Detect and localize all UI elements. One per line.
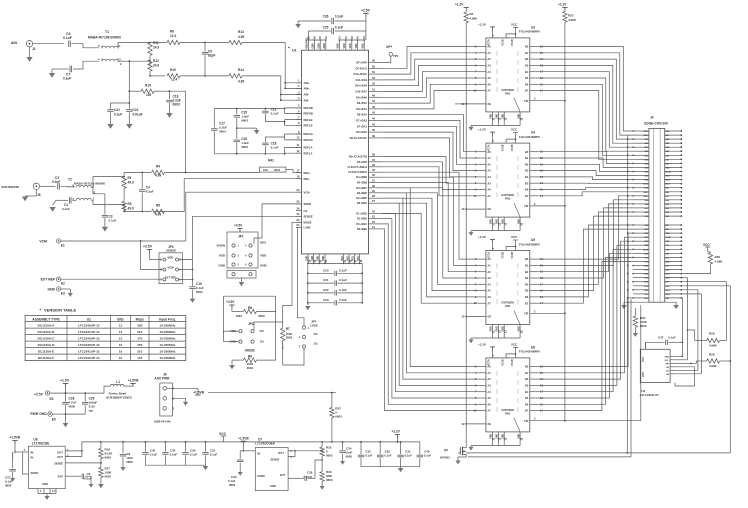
U6 pin OE — [466, 423, 486, 425]
svg-text:B5: B5 — [525, 76, 529, 80]
U3 pin A6 — [478, 83, 486, 85]
svg-text:33: 33 — [372, 173, 375, 177]
U3 pin B6 — [530, 83, 539, 85]
svg-text:OE: OE — [487, 315, 491, 319]
svg-text:0.1uF: 0.1uF — [63, 36, 72, 40]
svg-text:D0-/DB0: D0-/DB0 — [357, 227, 368, 231]
svg-text:VSS: VSS — [642, 372, 645, 377]
svg-text:4.99K: 4.99K — [568, 18, 577, 22]
ground — [305, 306, 311, 310]
wire — [383, 203, 478, 297]
wire SCL up to J4 — [686, 278, 688, 360]
svg-text:+2.5V: +2.5V — [226, 300, 235, 304]
svg-text:A1: A1 — [487, 51, 491, 55]
svg-text:+1.5VB: +1.5VB — [193, 391, 204, 395]
svg-text:31: 31 — [372, 179, 375, 183]
svg-text:22: 22 — [372, 220, 375, 224]
U5 pin T/R — [530, 312, 565, 314]
J4 row 31 — [633, 256, 649, 258]
U5 pin A5 — [478, 290, 486, 292]
svg-text:D0+/DB1: D0+/DB1 — [356, 222, 367, 226]
svg-text:170: 170 — [137, 356, 142, 360]
U5 pin B4 — [530, 283, 539, 285]
svg-text:17: 17 — [297, 168, 300, 172]
svg-text:OF-/DA11: OF-/DA11 — [355, 66, 367, 70]
svg-text:+1.2V: +1.2V — [455, 3, 464, 7]
svg-text:GND: GND — [665, 286, 670, 288]
capacitor C42 — [128, 103, 130, 109]
svg-text:0.1uF: 0.1uF — [335, 26, 343, 30]
U5 pin A1 — [478, 264, 486, 266]
ground — [297, 21, 299, 24]
wire — [383, 188, 478, 278]
svg-text:VCC: VCC — [511, 342, 518, 346]
svg-text:DB8: DB8 — [645, 204, 649, 206]
svg-text:DA6: DA6 — [645, 150, 649, 153]
svg-text:10-250MHz: 10-250MHz — [159, 336, 175, 340]
svg-text:0.1uF: 0.1uF — [271, 112, 279, 116]
svg-text:REFHB: REFHB — [304, 106, 313, 110]
svg-text:B5: B5 — [525, 289, 529, 293]
svg-text:SDA: SDA — [665, 260, 670, 263]
svg-text:U1: U1 — [87, 317, 91, 321]
svg-text:49.9: 49.9 — [128, 207, 134, 211]
svg-text:0.1uF: 0.1uF — [668, 336, 676, 340]
wire — [383, 115, 478, 152]
svg-text:DA5: DA5 — [645, 154, 649, 157]
wire — [539, 204, 634, 272]
svg-text:A3: A3 — [487, 276, 491, 280]
U6 pin B3 — [530, 384, 539, 386]
svg-text:D7-/DA1: D7-/DA1 — [357, 124, 368, 128]
svg-text:B3: B3 — [525, 384, 529, 388]
svg-text:VCC: VCC — [703, 243, 710, 247]
J4 row 10 — [633, 166, 649, 168]
wire — [539, 182, 634, 185]
wire — [539, 196, 634, 259]
wire — [539, 216, 634, 291]
svg-text:A7: A7 — [487, 89, 491, 93]
svg-text:EXPOSED: EXPOSED — [502, 301, 515, 305]
svg-text:SDA: SDA — [664, 355, 669, 358]
U5 pin A7 — [478, 302, 486, 304]
U2 pin WP — [670, 362, 675, 364]
wire — [383, 59, 478, 80]
svg-text:B6: B6 — [525, 188, 529, 192]
U3 pin A1 — [478, 52, 486, 54]
ground — [470, 445, 472, 447]
svg-text:B0: B0 — [525, 45, 529, 49]
svg-text:B0: B0 — [525, 365, 529, 369]
wire U6 T/R extension — [565, 420, 641, 422]
U4 pin B1 — [530, 157, 539, 159]
svg-text:DB1: DB1 — [665, 225, 669, 227]
svg-text:OUT: OUT — [278, 451, 284, 455]
svg-text:B2: B2 — [525, 57, 529, 61]
svg-text:+1.2V: +1.2V — [478, 22, 486, 26]
svg-text:IN: IN — [31, 456, 34, 460]
svg-text:56: 56 — [372, 59, 375, 63]
svg-text:VDD: VDD — [219, 254, 226, 258]
svg-text:DB11: DB11 — [665, 180, 670, 182]
svg-text:B7: B7 — [525, 409, 529, 413]
wire U8 out — [65, 450, 82, 452]
ground — [126, 124, 132, 129]
svg-text:B2: B2 — [525, 270, 529, 274]
wire — [539, 192, 634, 196]
svg-text:VCC: VCC — [665, 257, 670, 259]
svg-text:GND: GND — [665, 167, 670, 169]
svg-text:REFHA: REFHA — [304, 132, 313, 136]
wire — [539, 245, 634, 385]
svg-text:0.1uF: 0.1uF — [339, 298, 347, 302]
svg-text:63: 63 — [297, 218, 300, 222]
svg-text:A3: A3 — [487, 64, 491, 68]
wire R32 to VCC rail — [321, 442, 323, 447]
wire U2 cluster — [675, 355, 682, 357]
svg-text:0603: 0603 — [229, 483, 236, 487]
ground — [166, 113, 172, 118]
svg-text:opt: opt — [89, 409, 94, 413]
svg-text:0.1uF: 0.1uF — [384, 454, 392, 458]
svg-text:DA8: DA8 — [665, 130, 669, 133]
U6 pin A4 — [478, 391, 486, 393]
ground — [183, 402, 188, 406]
svg-text:T2: T2 — [68, 178, 72, 182]
svg-text:GND: GND — [665, 176, 670, 178]
svg-text:PWR GND: PWR GND — [30, 412, 47, 416]
J4 row 16 — [633, 191, 649, 193]
J4 row 1 — [633, 130, 649, 132]
svg-text:REFLB: REFLB — [304, 124, 313, 128]
svg-text:OF8: OF8 — [645, 261, 649, 263]
svg-text:GND: GND — [218, 264, 226, 268]
svg-text:CLKB: CLKB — [665, 237, 671, 239]
wire REFHA bridge — [284, 134, 286, 140]
J4 row 33 — [633, 265, 649, 267]
svg-text:28: 28 — [372, 194, 375, 198]
J4 row 36 — [633, 277, 649, 279]
svg-text:B1: B1 — [525, 264, 529, 268]
U3 pin B1 — [530, 52, 539, 54]
svg-text:VCCA: VCCA — [488, 144, 491, 151]
svg-text:R12: R12 — [153, 59, 159, 63]
svg-text:49: 49 — [372, 93, 375, 97]
capacitor C41 — [111, 103, 130, 109]
U6 pin B7 — [530, 410, 539, 412]
wire REFHB bridge — [285, 107, 302, 109]
svg-text:0603: 0603 — [335, 415, 342, 419]
svg-text:EDGE-CON-100: EDGE-CON-100 — [644, 122, 668, 126]
U2 pin SCL — [670, 359, 675, 361]
wire — [383, 167, 478, 196]
svg-text:PAD: PAD — [505, 411, 510, 415]
wire — [383, 72, 478, 92]
J4 row 19 — [633, 203, 649, 205]
svg-text:0.01uF: 0.01uF — [133, 113, 143, 117]
U4 pin B7 — [530, 195, 539, 197]
ground right — [665, 302, 676, 305]
svg-text:ENC+: ENC+ — [304, 171, 312, 175]
svg-text:B3B-PH-SK: B3B-PH-SK — [154, 420, 171, 424]
svg-text:VCCB: VCCB — [503, 252, 505, 259]
svg-text:46: 46 — [372, 105, 375, 109]
svg-text:A5: A5 — [487, 396, 491, 400]
U3 pin A7 — [478, 90, 486, 92]
svg-text:OE2: OE2 — [260, 241, 266, 245]
svg-text:D9+/DA6: D9+/DA6 — [356, 95, 367, 99]
svg-text:EXT REF: EXT REF — [165, 275, 176, 279]
wire — [539, 212, 634, 284]
svg-text:DB2: DB2 — [665, 216, 669, 218]
svg-text:SENSE: SENSE — [166, 249, 176, 253]
J4 row 4 — [633, 142, 649, 144]
capacitor C7 — [73, 61, 99, 69]
svg-text:DC1130A-A: DC1130A-A — [38, 323, 55, 327]
svg-text:B7: B7 — [525, 301, 529, 305]
J4 row 41 — [633, 297, 649, 299]
svg-text:DA10: DA10 — [665, 293, 670, 296]
svg-text:D11+/DA10: D11+/DA10 — [354, 72, 368, 76]
J4 row 26 — [633, 236, 649, 238]
svg-text:10: 10 — [119, 349, 123, 353]
svg-text:DA10: DA10 — [643, 134, 648, 137]
svg-text:B1: B1 — [525, 51, 529, 55]
svg-text:0.1uF: 0.1uF — [339, 278, 347, 282]
svg-text:R2: R2 — [469, 12, 473, 16]
J4 row 38 — [633, 285, 649, 287]
wire Q5 source to ground — [458, 454, 466, 460]
wire T1 top out — [117, 45, 119, 48]
svg-text:40: 40 — [372, 128, 375, 132]
wire — [72, 44, 100, 48]
U1 top pins VDD group — [338, 40, 340, 50]
svg-text:4.99: 4.99 — [238, 35, 244, 39]
svg-text:A3: A3 — [487, 384, 491, 388]
U6 pin A1 — [478, 372, 486, 374]
U6 pin A0 — [478, 366, 486, 368]
svg-text:DA0: DA0 — [665, 162, 669, 165]
svg-text:C25: C25 — [323, 26, 329, 30]
U4 pin B3 — [530, 170, 539, 172]
svg-text:210: 210 — [137, 330, 142, 334]
wire — [539, 47, 634, 132]
wire — [383, 214, 478, 392]
svg-text:VCCB: VCCB — [503, 39, 505, 46]
svg-text:CLKA: CLKA — [643, 183, 649, 186]
svg-text:10-250MHz: 10-250MHz — [159, 330, 175, 334]
ground — [470, 338, 472, 340]
svg-text:0603: 0603 — [326, 454, 333, 458]
svg-text:+0.5V: +0.5V — [234, 224, 243, 228]
svg-text:GND: GND — [644, 298, 649, 300]
svg-text:GND: GND — [42, 482, 48, 486]
svg-text:CLKOUT+/DB11: CLKOUT+/DB11 — [347, 165, 367, 169]
svg-text:0.1uF: 0.1uF — [210, 453, 218, 457]
wire — [383, 132, 478, 171]
svg-text:Input Freq.: Input Freq. — [159, 317, 176, 321]
svg-text:GND: GND — [665, 270, 670, 272]
svg-text:DB3: DB3 — [645, 229, 649, 231]
U3 pin A2 — [478, 58, 486, 60]
svg-text:DB6: DB6 — [665, 200, 669, 202]
ground Q5 — [455, 461, 460, 465]
wire R28 R26 net — [687, 330, 694, 341]
J4 row 23 — [633, 224, 649, 226]
svg-text:PAD: PAD — [505, 91, 510, 95]
svg-text:A4: A4 — [487, 282, 491, 286]
ground — [22, 197, 28, 202]
ground — [26, 57, 32, 62]
svg-text:DB11: DB11 — [644, 192, 649, 194]
capacitor C9 — [204, 42, 206, 44]
J4 row 35 — [633, 273, 649, 275]
U5 pin A6 — [478, 296, 486, 298]
U2 pin A0 — [670, 373, 675, 375]
svg-text:C47: C47 — [658, 336, 664, 340]
svg-text:VDD: VDD — [349, 43, 352, 48]
svg-text:VCCB: VCCB — [512, 359, 514, 366]
svg-text:R15: R15 — [145, 84, 151, 88]
svg-text:DA5: DA5 — [665, 142, 669, 145]
J4 row 21 — [633, 211, 649, 213]
svg-text:12.4: 12.4 — [170, 34, 176, 38]
svg-text:PAD: PAD — [505, 304, 510, 308]
svg-text:LVDS: LVDS — [310, 323, 318, 327]
svg-text:10-250MHz: 10-250MHz — [159, 323, 175, 327]
svg-text:0603: 0603 — [196, 290, 203, 294]
svg-text:VCCB: VCCB — [503, 359, 505, 366]
U6 pin B6 — [530, 403, 539, 405]
svg-text:DA9: DA9 — [645, 138, 649, 141]
svg-text:D1-/DB2: D1-/DB2 — [357, 217, 368, 221]
svg-text:E3: E3 — [61, 292, 65, 296]
svg-text:0603: 0603 — [105, 475, 112, 479]
svg-text:REFLA: REFLA — [304, 146, 313, 150]
svg-text:J4: J4 — [650, 116, 654, 120]
wire to AIN- pins — [280, 76, 282, 100]
U6 pin B5 — [530, 397, 539, 399]
U5 pin A3 — [478, 277, 486, 279]
wire bottom rail — [308, 262, 362, 264]
U4 bottom GND pins — [491, 217, 493, 227]
J4 row 30 — [633, 252, 649, 254]
U6 pin B4 — [530, 391, 539, 393]
wire — [539, 257, 634, 404]
wire — [539, 78, 634, 151]
wire ENC+ row — [123, 176, 125, 178]
svg-text:J1: J1 — [32, 47, 36, 51]
wire — [539, 164, 634, 171]
svg-text:R26: R26 — [709, 353, 715, 357]
svg-text:DA2: DA2 — [665, 154, 669, 157]
U1 bottom pins — [307, 254, 309, 264]
svg-text:PAD: PAD — [505, 197, 510, 201]
svg-text:FXLH4245MPX: FXLH4245MPX — [519, 242, 540, 246]
svg-text:A2: A2 — [487, 162, 491, 166]
svg-text:B2: B2 — [525, 377, 529, 381]
svg-text:ENC0DE03K: ENC0DE03K — [2, 185, 21, 189]
svg-text:10-250MHz: 10-250MHz — [159, 356, 175, 360]
U4 pin A5 — [478, 182, 486, 184]
svg-text:REFLB: REFLB — [304, 118, 313, 122]
svg-text:+2.5V: +2.5V — [34, 392, 44, 396]
svg-text:B1: B1 — [525, 371, 529, 375]
svg-text:GND: GND — [644, 245, 649, 247]
svg-text:24LC025H-ST: 24LC025H-ST — [640, 393, 660, 397]
svg-text:LTC2241UP-12: LTC2241UP-12 — [78, 330, 100, 334]
U6 pin B2 — [530, 378, 539, 380]
wire A1 up to J4 — [697, 290, 699, 371]
svg-text:DB10: DB10 — [665, 184, 670, 186]
wire C47 node up to J4 — [681, 298, 683, 356]
svg-text:12: 12 — [119, 330, 123, 334]
svg-text:45: 45 — [372, 111, 375, 115]
svg-text:+2.5V: +2.5V — [143, 245, 153, 249]
svg-text:AIN: AIN — [11, 41, 18, 45]
J4 row 15 — [633, 187, 649, 189]
wire REF bottom rail — [214, 153, 284, 155]
svg-text:D5-/OF8: D5-/OF8 — [357, 160, 368, 164]
svg-text:GND: GND — [260, 264, 268, 268]
svg-text:0603: 0603 — [173, 103, 180, 107]
ground — [61, 288, 71, 290]
U6 pin B0 — [530, 366, 539, 368]
svg-text:2/3: 2/3 — [314, 332, 318, 336]
svg-text:250: 250 — [137, 323, 142, 327]
svg-text:DB5: DB5 — [665, 204, 669, 206]
svg-text:E2: E2 — [61, 282, 65, 286]
wire — [539, 200, 634, 266]
svg-text:0603: 0603 — [241, 119, 248, 123]
U4 pin A3 — [478, 170, 486, 172]
wire ENC- row — [123, 204, 125, 206]
wire T/R rail — [564, 22, 566, 420]
svg-text:DC1130A-B: DC1130A-B — [38, 330, 55, 334]
svg-text:47: 47 — [372, 99, 375, 103]
svg-text:D11-/DA9: D11-/DA9 — [356, 78, 368, 82]
svg-text:GND: GND — [665, 253, 670, 255]
svg-text:A6: A6 — [487, 295, 491, 299]
U6 pin A5 — [478, 397, 486, 399]
U3 pin T/R — [530, 100, 565, 102]
svg-text:+1.2V: +1.2V — [558, 3, 567, 7]
svg-text:VCCB: VCCB — [503, 144, 505, 151]
svg-text:0603: 0603 — [640, 324, 647, 328]
svg-text:LTC2240UP-12: LTC2240UP-12 — [78, 336, 100, 340]
svg-text:GND: GND — [644, 180, 649, 182]
svg-text:VCM: VCM — [39, 239, 47, 243]
svg-text:CS: CS — [304, 209, 308, 213]
svg-text:49.9: 49.9 — [128, 181, 134, 185]
wire — [50, 392, 104, 394]
svg-text:0.1uF: 0.1uF — [114, 113, 122, 117]
wire R28 up to J4 — [681, 282, 726, 341]
wire JP2 right to SENSE — [179, 216, 302, 259]
svg-text:B4: B4 — [525, 390, 529, 394]
svg-text:VCC: VCC — [644, 270, 649, 272]
svg-text:GND: GND — [665, 233, 670, 235]
J4 row 17 — [633, 195, 649, 197]
wire — [539, 53, 634, 135]
wire — [539, 177, 634, 180]
svg-text:+1.2V: +1.2V — [478, 235, 486, 239]
U2 pin A2 — [670, 366, 675, 368]
U5 bottom GND pins — [491, 325, 493, 335]
svg-text:DA7: DA7 — [665, 134, 669, 137]
J4 row 7 — [633, 154, 649, 156]
svg-text:CLKB: CLKB — [643, 249, 649, 251]
